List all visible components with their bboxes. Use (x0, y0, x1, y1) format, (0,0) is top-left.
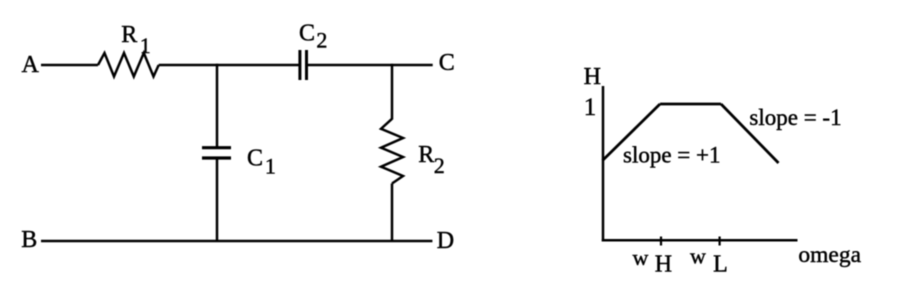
capacitor C2 (300, 50, 307, 80)
svg-text:L: L (713, 251, 728, 277)
wire bottom rail B to D (41, 240, 432, 243)
label R2 (418, 142, 444, 178)
svg-text:w: w (633, 245, 649, 270)
svg-text:slope = +1: slope = +1 (623, 143, 721, 168)
resistor R1 (98, 53, 159, 77)
svg-text:1: 1 (140, 33, 151, 58)
capacitor C1 (202, 148, 231, 158)
svg-text:R: R (121, 22, 137, 48)
svg-text:C: C (247, 146, 263, 172)
curve rising slope +1 (603, 104, 661, 161)
wire A lead (41, 64, 98, 67)
svg-text:B: B (21, 227, 37, 253)
wire node C to R2 (391, 64, 394, 120)
x-axis (602, 239, 798, 242)
wire junction to C1 (216, 64, 219, 147)
svg-text:C: C (299, 21, 315, 47)
wire C1 to bottom rail (216, 160, 219, 243)
wire C2 to node C (308, 64, 433, 67)
wire R1 to C2 (159, 64, 299, 67)
label C1 (247, 146, 276, 179)
label R1 (121, 22, 151, 58)
tick wL (718, 237, 720, 246)
svg-text:2: 2 (316, 28, 327, 53)
svg-text:w: w (690, 244, 706, 269)
svg-text:R: R (418, 142, 434, 168)
label wH (633, 245, 673, 277)
svg-text:H: H (655, 251, 672, 277)
svg-text:slope = -1: slope = -1 (749, 105, 841, 130)
svg-text:omega: omega (798, 242, 861, 268)
svg-text:H: H (584, 64, 601, 90)
y-axis (602, 86, 605, 242)
wire R2 to bottom rail (391, 184, 394, 243)
label wL (690, 244, 728, 278)
curve falling slope -1 (721, 104, 779, 163)
svg-text:A: A (22, 52, 40, 78)
curve flat top (660, 103, 721, 106)
label C2 (299, 21, 327, 53)
svg-text:C: C (439, 50, 455, 76)
svg-text:D: D (437, 228, 454, 254)
tick wH (660, 237, 662, 246)
svg-text:1: 1 (584, 94, 597, 121)
svg-text:2: 2 (434, 153, 445, 178)
resistor R2 (381, 119, 403, 184)
svg-text:1: 1 (265, 154, 276, 179)
